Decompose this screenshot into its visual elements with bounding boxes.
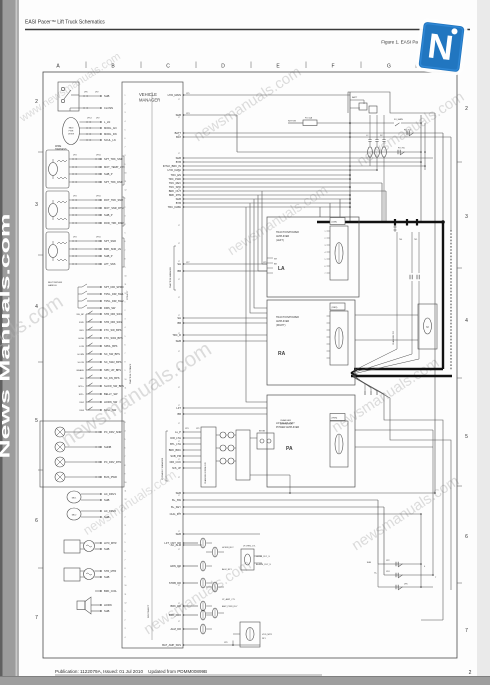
svg-text:J7: J7 <box>178 351 180 353</box>
svg-text:JP10: JP10 <box>96 196 102 198</box>
svg-text:BR BB: BR BB <box>259 431 266 433</box>
svg-text:HYDRAULIC MANAGER: HYDRAULIC MANAGER <box>161 457 164 480</box>
svg-text:BAT: BAT <box>176 135 181 139</box>
svg-text:8: 8 <box>125 465 126 467</box>
svg-text:5: 5 <box>465 434 468 440</box>
svg-text:2: 2 <box>125 413 126 415</box>
svg-text:TRACTION MANAGER: TRACTION MANAGER <box>169 267 172 288</box>
svg-text:JP_AMP_CTL: JP_AMP_CTL <box>222 598 236 601</box>
svg-text:4: 4 <box>125 224 126 226</box>
svg-text:TRC_SPD: TRC_SPD <box>169 185 181 189</box>
svg-text:BRK_DR2: BRK_DR2 <box>169 613 182 617</box>
svg-text:EASI Pacer™ Lift Truck Schemat: EASI Pacer™ Lift Truck Schematics <box>25 20 105 26</box>
svg-text:DIR_CCK: DIR_CCK <box>170 460 182 464</box>
svg-text:Publication: 1122079A, Issued:: Publication: 1122079A, Issued: 01 Jul 20… <box>55 669 207 674</box>
svg-text:BB: BB <box>178 321 182 325</box>
svg-text:10: 10 <box>125 172 127 174</box>
svg-text:EASI: EASI <box>69 127 74 130</box>
svg-text:MD1: MD1 <box>72 498 77 500</box>
svg-text:J7: J7 <box>178 243 180 245</box>
svg-text:7: 7 <box>125 250 126 252</box>
svg-text:4: 4 <box>35 304 38 310</box>
svg-text:JP12: JP12 <box>87 118 93 120</box>
svg-text:J7: J7 <box>178 117 180 119</box>
svg-text:SW_BP: SW_BP <box>76 314 84 316</box>
svg-text:10: 10 <box>125 276 127 278</box>
svg-text:NULL_SW: NULL_SW <box>104 408 117 412</box>
svg-text:CONN J7: CONN J7 <box>127 290 129 300</box>
svg-text:SHNB: SHNB <box>104 445 111 449</box>
svg-text:TRC_FWD: TRC_FWD <box>168 177 181 181</box>
svg-text:4: 4 <box>325 252 326 254</box>
svg-text:LFT: LFT <box>176 406 181 410</box>
svg-text:AMPLIFIER: AMPLIFIER <box>276 235 289 238</box>
svg-text:SUB_PM: SUB_PM <box>170 454 181 458</box>
svg-text:7: 7 <box>125 147 126 149</box>
svg-text:HANDLE: HANDLE <box>48 284 57 287</box>
svg-text:SHB: SHB <box>104 575 110 579</box>
svg-text:SH: SH <box>177 316 181 320</box>
svg-text:Figure 1. EASI Pa: Figure 1. EASI Pa <box>381 40 418 45</box>
svg-text:D: D <box>221 64 225 70</box>
svg-text:ROD_TRK_DNR: ROD_TRK_DNR <box>104 221 124 225</box>
svg-text:STR_DIR_SW2: STR_DIR_SW2 <box>104 320 123 324</box>
svg-text:STR_MTR: STR_MTR <box>104 569 116 573</box>
svg-text:SHB: SHB <box>176 156 182 160</box>
svg-text:10: 10 <box>125 379 127 381</box>
svg-text:ALARM_RLY_S: ALARM_RLY_S <box>256 563 271 566</box>
svg-text:1: 1 <box>125 508 126 510</box>
svg-text:PA: PA <box>286 446 293 452</box>
svg-text:Ls_P: Ls_P <box>175 430 181 434</box>
svg-text:SHB: SHB <box>104 94 110 98</box>
svg-text:BRK_RTN: BRK_RTN <box>169 193 181 197</box>
svg-text:LFT_CNT_DR: LFT_CNT_DR <box>164 541 181 545</box>
svg-text:12: 12 <box>125 602 127 604</box>
svg-text:9: 9 <box>125 164 126 166</box>
svg-text:KEYSW: KEYSW <box>288 121 297 123</box>
svg-text:FU 704: FU 704 <box>404 130 412 132</box>
svg-text:(LBR): (LBR) <box>332 222 338 224</box>
svg-text:3: 3 <box>325 245 326 247</box>
svg-text:HORN_RLY: HORN_RLY <box>222 547 234 549</box>
svg-text:CHARGER: CHARGER <box>280 419 291 422</box>
svg-text:SHB: SHB <box>176 491 182 495</box>
svg-text:TRVL_DIR_SW1: TRVL_DIR_SW1 <box>104 292 124 296</box>
svg-text:2: 2 <box>125 104 126 106</box>
svg-text:2: 2 <box>125 207 126 209</box>
svg-text:HORN: HORN <box>104 603 112 607</box>
svg-text:3: 3 <box>125 422 126 424</box>
svg-text:(RIGHT): (RIGHT) <box>276 324 286 327</box>
svg-text:SPDL_BPS: SPDL_BPS <box>104 344 118 348</box>
svg-text:12: 12 <box>125 499 127 501</box>
svg-text:HYD_MTR: HYD_MTR <box>262 634 273 636</box>
svg-text:(LEFT): (LEFT) <box>276 239 284 242</box>
svg-text:SPD+: SPD+ <box>78 386 84 388</box>
svg-text:MODL_AN: MODL_AN <box>104 126 117 130</box>
svg-text:12: 12 <box>125 293 127 295</box>
svg-text:3: 3 <box>35 202 38 208</box>
svg-text:STR_DIR_SW1: STR_DIR_SW1 <box>104 312 123 316</box>
svg-text:MOT_TEMP_LTN: MOT_TEMP_LTN <box>104 165 125 169</box>
svg-text:SW2: SW2 <box>79 402 85 404</box>
svg-text:AMP_PWR_RLY: AMP_PWR_RLY <box>222 605 238 608</box>
svg-text:6: 6 <box>465 534 468 540</box>
svg-text:6: 6 <box>325 266 326 268</box>
svg-text:7: 7 <box>465 628 468 634</box>
svg-text:POWER AMPLIFIER: POWER AMPLIFIER <box>276 426 299 429</box>
svg-text:MD2: MD2 <box>72 515 77 517</box>
svg-text:11: 11 <box>125 387 127 389</box>
svg-text:(RBR): (RBR) <box>332 307 338 309</box>
svg-text:SPT_TRK_SNR: SPT_TRK_SNR <box>104 157 123 161</box>
svg-text:3: 3 <box>465 214 468 220</box>
svg-text:J7: J7 <box>178 621 180 623</box>
svg-text:SC_SW_BPS: SC_SW_BPS <box>104 352 120 356</box>
svg-text:8: 8 <box>125 568 126 570</box>
svg-text:BRAKE: BRAKE <box>77 369 85 372</box>
svg-text:N: N <box>426 26 456 68</box>
svg-text:5: 5 <box>125 129 126 131</box>
svg-text:8: 8 <box>125 258 126 260</box>
svg-text:DRIVE: DRIVE <box>68 134 75 136</box>
svg-text:10: 10 <box>125 482 127 484</box>
svg-text:L_LN: L_LN <box>104 120 110 124</box>
svg-text:PC_DRV_SNR: PC_DRV_SNR <box>104 430 122 434</box>
svg-text:SPT_DIR_SPRD: SPT_DIR_SPRD <box>104 285 124 289</box>
svg-text:BB: BB <box>178 269 182 273</box>
svg-text:CHARGER INTERLOCK: CHARGER INTERLOCK <box>204 461 207 484</box>
svg-text:(PBR): (PBR) <box>332 418 338 420</box>
svg-text:8: 8 <box>125 362 126 364</box>
svg-text:2: 2 <box>465 106 468 112</box>
svg-text:TRC_EN: TRC_EN <box>171 173 182 177</box>
svg-text:J7: J7 <box>178 423 180 425</box>
svg-text:7: 7 <box>125 456 126 458</box>
svg-text:9: 9 <box>125 473 126 475</box>
svg-text:J7: J7 <box>178 585 180 587</box>
svg-text:SLOW: SLOW <box>78 362 85 364</box>
svg-text:5: 5 <box>325 259 326 261</box>
svg-text:2: 2 <box>125 620 126 622</box>
svg-text:REV: REV <box>80 330 85 332</box>
svg-text:SHB: SHB <box>104 547 110 551</box>
svg-text:JP_HRN_CTL: JP_HRN_CTL <box>243 546 257 548</box>
svg-text:9: 9 <box>125 577 126 579</box>
svg-text:1: 1 <box>125 405 126 407</box>
svg-text:SHB: SHB <box>176 197 182 201</box>
svg-text:SPT_SNR: SPT_SNR <box>104 239 116 243</box>
svg-text:FU_MAIN: FU_MAIN <box>394 118 403 121</box>
svg-text:LA: LA <box>278 266 285 272</box>
svg-text:MODL_DN: MODL_DN <box>104 132 117 136</box>
svg-text:12: 12 <box>125 396 127 398</box>
svg-text:BRK_BRC: BRK_BRC <box>169 448 181 452</box>
svg-text:7: 7 <box>35 615 38 621</box>
svg-text:6: 6 <box>125 241 126 243</box>
svg-text:BRK_SNR_LN: BRK_SNR_LN <box>104 247 121 251</box>
svg-text:3: 3 <box>125 319 126 321</box>
svg-text:2: 2 <box>125 516 126 518</box>
svg-text:5: 5 <box>125 233 126 235</box>
svg-text:10: 10 <box>125 585 127 587</box>
svg-text:BYB: BYB <box>176 201 181 205</box>
svg-text:VEHICLE: VEHICLE <box>139 92 157 97</box>
svg-text:PWR: PWR <box>69 131 74 133</box>
svg-text:J7: J7 <box>178 225 180 227</box>
svg-text:CHARGER 700: CHARGER 700 <box>392 330 395 345</box>
svg-text:TRC_REV: TRC_REV <box>169 181 181 185</box>
svg-text:SC_DN_BPS: SC_DN_BPS <box>104 376 120 380</box>
svg-text:PC_DRV_RTN: PC_DRV_RTN <box>104 460 121 464</box>
svg-text:RA: RA <box>278 351 286 357</box>
svg-text:11: 11 <box>125 594 127 596</box>
svg-text:6: 6 <box>125 138 126 140</box>
svg-text:4: 4 <box>125 121 126 123</box>
svg-text:CLOSN: CLOSN <box>104 106 113 110</box>
svg-text:ALM_DR: ALM_DR <box>170 627 181 631</box>
svg-text:J7: J7 <box>178 279 180 281</box>
svg-text:G: G <box>387 64 391 70</box>
svg-text:4: 4 <box>125 430 126 432</box>
svg-text:TRC_DATA: TRC_DATA <box>168 205 182 209</box>
svg-text:2: 2 <box>469 670 472 676</box>
svg-text:6: 6 <box>125 448 126 450</box>
svg-text:SHB: SHB <box>104 609 110 613</box>
svg-text:HIGH: HIGH <box>79 338 85 340</box>
svg-text:SHB_P: SHB_P <box>104 172 113 176</box>
svg-text:BELT/DRIVER: BELT/DRIVER <box>48 282 63 284</box>
svg-text:AC_DRV1: AC_DRV1 <box>104 492 116 496</box>
svg-text:TRC_R: TRC_R <box>172 333 181 337</box>
svg-text:DIR_LTH: DIR_LTH <box>170 436 181 440</box>
svg-text:3: 3 <box>125 525 126 527</box>
svg-text:9: 9 <box>125 267 126 269</box>
svg-text:BYB: BYB <box>176 160 181 164</box>
svg-text:JP10: JP10 <box>96 237 102 239</box>
svg-text:HORN_SW: HORN_SW <box>104 400 118 404</box>
svg-text:TRACTION/POWER: TRACTION/POWER <box>276 231 299 234</box>
svg-text:3: 3 <box>125 628 126 630</box>
svg-text:7: 7 <box>125 559 126 561</box>
svg-text:8: 8 <box>125 155 126 157</box>
svg-text:HORN_RLY_S: HORN_RLY_S <box>256 556 270 558</box>
svg-text:DISCONNECT: DISCONNECT <box>148 604 150 618</box>
svg-text:1: 1 <box>125 611 126 613</box>
svg-text:BB: BB <box>178 412 182 416</box>
svg-text:J7: J7 <box>178 369 180 371</box>
svg-text:RLY: RLY <box>262 638 267 640</box>
svg-text:6: 6 <box>125 344 126 346</box>
svg-text:MOT_SNR_RTN: MOT_SNR_RTN <box>104 206 124 210</box>
svg-text:CHG_INT: CHG_INT <box>170 512 182 516</box>
svg-text:HYD_MTR: HYD_MTR <box>104 541 117 545</box>
svg-text:SHB: SHB <box>104 498 110 502</box>
svg-text:6: 6 <box>125 551 126 553</box>
svg-text:ALM_RLY: ALM_RLY <box>222 568 232 571</box>
svg-text:J7: J7 <box>178 549 180 551</box>
svg-text:J7: J7 <box>178 477 180 479</box>
svg-text:News Manuals.com: News Manuals.com <box>0 214 13 459</box>
svg-text:SHB: SHB <box>176 113 182 117</box>
svg-text:9: 9 <box>125 370 126 372</box>
svg-text:F: F <box>331 64 334 70</box>
svg-text:1: 1 <box>125 95 126 97</box>
svg-text:SHB: SHB <box>176 532 182 536</box>
svg-text:1: 1 <box>125 301 126 303</box>
svg-text:SW3: SW3 <box>79 410 85 412</box>
svg-text:2: 2 <box>325 238 326 240</box>
svg-text:4: 4 <box>465 318 468 324</box>
svg-text:5: 5 <box>35 418 38 424</box>
svg-text:DMS_SW: DMS_SW <box>104 306 116 310</box>
svg-text:BATT: BATT <box>175 131 182 135</box>
svg-text:M: M <box>426 325 428 329</box>
svg-text:TRACTION/POWER: TRACTION/POWER <box>276 316 299 319</box>
svg-text:705: 705 <box>414 239 417 241</box>
svg-text:3: 3 <box>125 112 126 114</box>
svg-text:J7: J7 <box>178 387 180 389</box>
svg-text:ROT_TRK_SNR: ROT_TRK_SNR <box>104 198 123 202</box>
svg-text:JP10: JP10 <box>96 155 102 157</box>
svg-text:7: 7 <box>325 273 326 275</box>
svg-text:SC_SW2_BPS: SC_SW2_BPS <box>104 360 122 364</box>
svg-text:TRVL_DIR_SW2: TRVL_DIR_SW2 <box>104 299 124 303</box>
svg-text:BTL_LTH: BTL_LTH <box>170 442 181 446</box>
svg-text:HYD_MAIN: HYD_MAIN <box>168 93 182 97</box>
svg-text:11: 11 <box>125 491 127 493</box>
svg-text:1: 1 <box>325 231 326 233</box>
svg-text:SPT_TRK_DNR: SPT_TRK_DNR <box>104 180 123 184</box>
svg-text:5: 5 <box>125 439 126 441</box>
svg-text:INTLK_BRK_IN: INTLK_BRK_IN <box>163 164 181 168</box>
svg-text:BRK_COIL: BRK_COIL <box>104 589 117 593</box>
svg-text:FU 705: FU 705 <box>398 148 406 150</box>
svg-text:J7: J7 <box>178 495 180 497</box>
svg-text:B+_SW: B+_SW <box>172 498 181 502</box>
svg-text:4: 4 <box>125 534 126 536</box>
svg-text:LPT_SNS: LPT_SNS <box>104 262 116 266</box>
svg-text:11: 11 <box>125 181 127 183</box>
svg-text:SLOW_SW_BPS: SLOW_SW_BPS <box>104 384 124 388</box>
svg-text:BUS_PWR: BUS_PWR <box>104 475 117 479</box>
svg-text:J7: J7 <box>178 297 180 299</box>
svg-text:HORN: HORN <box>78 354 85 356</box>
svg-text:SHB: SHB <box>367 562 372 564</box>
svg-text:SCUL_LN: SCUL_LN <box>104 138 116 142</box>
svg-text:SH: SH <box>177 262 181 266</box>
svg-text:BATT: BATT <box>352 96 358 99</box>
svg-text:AMPLIFIER: AMPLIFIER <box>276 320 289 323</box>
svg-text:12: 12 <box>125 190 127 192</box>
svg-text:INTERLOCK: INTERLOCK <box>280 424 293 426</box>
svg-text:AC_DRV2: AC_DRV2 <box>104 509 116 513</box>
svg-text:5: 5 <box>125 336 126 338</box>
svg-text:TRACTION CUTBACK: TRACTION CUTBACK <box>129 363 132 384</box>
svg-text:STRB_DR: STRB_DR <box>169 581 181 585</box>
svg-text:2: 2 <box>125 310 126 312</box>
svg-text:SPD-: SPD- <box>79 394 84 396</box>
svg-text:FU 10A: FU 10A <box>305 117 313 120</box>
svg-text:HRN_DR: HRN_DR <box>170 564 181 568</box>
svg-text:FTC_SW_BPS: FTC_SW_BPS <box>104 328 122 332</box>
svg-text:7: 7 <box>125 353 126 355</box>
svg-text:4: 4 <box>125 327 126 329</box>
svg-text:2: 2 <box>35 99 38 105</box>
svg-text:BRK_DR: BRK_DR <box>170 604 181 608</box>
svg-text:SPD_UP_BPS: SPD_UP_BPS <box>104 368 121 372</box>
svg-text:4: 4 <box>125 637 126 639</box>
svg-text:HYD_DATA: HYD_DATA <box>168 168 182 172</box>
svg-text:5: 5 <box>125 542 126 544</box>
svg-text:N/S_JP: N/S_JP <box>172 466 181 470</box>
svg-text:SHB_P: SHB_P <box>104 213 113 217</box>
svg-text:1: 1 <box>125 198 126 200</box>
svg-text:SHB: SHB <box>176 339 182 343</box>
svg-text:SHB_P: SHB_P <box>104 254 113 258</box>
svg-text:FWD: FWD <box>79 322 84 324</box>
svg-text:SHB: SHB <box>104 515 110 519</box>
svg-text:BRK_OUT: BRK_OUT <box>169 189 182 193</box>
svg-text:704: 704 <box>399 239 402 241</box>
svg-text:J7: J7 <box>178 153 180 155</box>
svg-text:MANAGER: MANAGER <box>139 98 160 103</box>
svg-text:BAT_AMP_SNS: BAT_AMP_SNS <box>162 643 181 647</box>
svg-text:FTC_SW2_BPS: FTC_SW2_BPS <box>104 336 123 340</box>
svg-text:6: 6 <box>35 518 38 524</box>
svg-text:C: C <box>166 64 170 70</box>
svg-text:B+_KEY: B+_KEY <box>171 505 181 509</box>
svg-text:J7: J7 <box>178 99 180 101</box>
svg-text:BELLY_SW: BELLY_SW <box>104 392 118 396</box>
svg-text:11: 11 <box>125 284 127 286</box>
svg-text:3: 3 <box>125 215 126 217</box>
